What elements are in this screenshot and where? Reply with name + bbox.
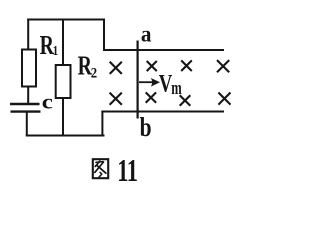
magnetic field cross row2 col4 [218,93,230,105]
wire right branch bottom (bottom rail to loop) [101,111,103,137]
wire R2 branch bottom [62,98,64,136]
svg-text:1: 1 [127,152,138,188]
label Vm [159,69,182,99]
wire top rail [103,49,224,51]
magnetic field cross row2 col2 [146,92,156,102]
capacitor c [10,104,41,112]
svg-text:b: b [140,113,152,143]
wire bottom rail [101,111,224,113]
rod ab (conducting bar) [137,41,139,119]
resistor R2 [56,65,71,98]
wire left branch top (to R1) [27,19,29,51]
wire R2 branch top [62,20,64,66]
svg-text:2: 2 [91,66,97,82]
wire top (loop top side) [27,19,105,21]
svg-text:c: c [42,91,53,113]
magnetic field cross row1 col4 [217,60,229,72]
label R1 [40,31,59,61]
wire left branch bottom (capacitor to loop bottom) [26,112,28,137]
magnetic field cross row2 col1 [110,93,122,105]
velocity arrow Vm [139,78,160,87]
magnetic field cross row1 col1 [110,62,122,74]
wire bottom (loop bottom side) [26,135,105,137]
svg-text:V: V [159,69,173,97]
wire left branch middle (R1 to capacitor) [27,86,29,104]
wire right branch top (loop to top rail) [103,19,105,51]
magnetic field cross row1 col2 [147,61,157,71]
caption number 11 [117,152,138,188]
magnetic field cross row2 col3 [180,95,191,106]
magnetic field cross row1 col3 [181,60,192,71]
svg-text:1: 1 [53,43,59,58]
resistor R1 [22,50,36,87]
label R2 [78,51,98,82]
caption character 图 [93,159,108,178]
svg-text:a: a [141,21,152,47]
